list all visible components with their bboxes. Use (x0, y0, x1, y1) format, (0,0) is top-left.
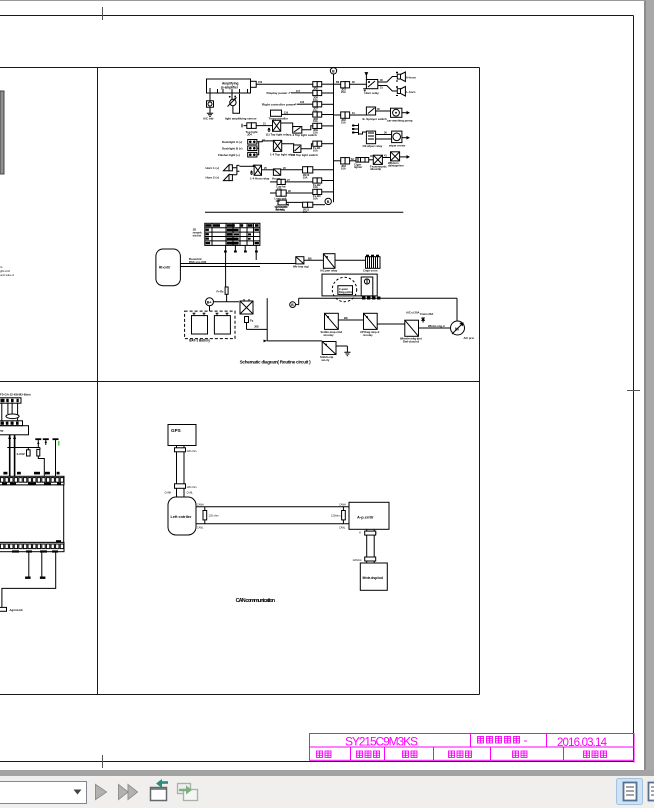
arrowheads on power pair (8, 435, 16, 439)
compressor dashed circle (332, 277, 356, 301)
terminal strip lower (0, 542, 64, 551)
CAN stub wire 2 (41, 552, 43, 577)
svg-text:10A: 10A (276, 199, 281, 203)
svg-text:Mntr.dsplod: Mntr.dsplod (363, 576, 383, 580)
svg-text:CAN communication: CAN communication (236, 598, 276, 604)
wire sensor to relay (304, 259, 324, 261)
svg-text:Tmpcontroller: Tmpcontroller (269, 116, 289, 120)
combo dropdown arrow (74, 790, 82, 795)
svg-text:31: 31 (380, 86, 383, 89)
wire drops from J1 (1, 403, 3, 421)
row2 name ZhanYunFei (357, 751, 380, 758)
horn symbol 1 (223, 165, 232, 171)
inner divider horizontal (0, 381, 480, 383)
svg-text:Dashlight A (+): Dashlight A (+) (222, 140, 242, 144)
top light fuse pair (247, 123, 256, 129)
terminal resistor 120ohm lower (175, 484, 186, 489)
svg-text:120ohm: 120ohm (331, 514, 340, 518)
drawing title CJK (478, 737, 528, 744)
terminal resistor 120ohm top (175, 448, 186, 452)
svg-text:10A: 10A (313, 197, 318, 201)
wires dash chain (282, 144, 294, 145)
row2 label ShenPi (513, 751, 528, 758)
svg-text:10A: 10A (313, 98, 318, 102)
svg-text:Fr-Rs: Fr-Rs (217, 290, 225, 294)
svg-text:Horn relay: Horn relay (365, 91, 380, 95)
feed wire to lower relay (267, 340, 322, 342)
svg-text:Rd-wn: Rd-wn (276, 208, 284, 212)
svg-text:JD4: JD4 (247, 133, 252, 137)
svg-text:Wlmtn-nng-d: Wlmtn-nng-d (428, 324, 445, 328)
svg-text:10A: 10A (341, 166, 346, 170)
fuse FB3 right column (341, 158, 350, 164)
svg-text:B: B (327, 200, 330, 204)
ground below S1 (209, 107, 211, 113)
return wire right (2, 552, 56, 608)
svg-text:117: 117 (296, 90, 301, 93)
battery feed arrow into horn relay (365, 73, 367, 80)
relay K-comp (323, 254, 335, 269)
svg-text:CANL: CANL (187, 492, 194, 495)
wire toplight to relay (256, 125, 272, 127)
play button double (119, 785, 129, 800)
svg-text:A/C trib: A/C trib (203, 117, 214, 121)
wire FB2 to sprayer switch (350, 114, 367, 116)
fuse F3 (313, 102, 322, 107)
svg-text:wl-relay: wl-relay (323, 333, 335, 337)
svg-text:car-washing pump: car-washing pump (387, 118, 413, 122)
svg-text:120ohm: 120ohm (353, 558, 362, 562)
svg-text:4-C02: 4-C02 (17, 452, 26, 456)
wire CAN pair from GPS (176, 446, 178, 498)
wire to horn H (378, 77, 398, 83)
svg-text:1-3 Top light switch: 1-3 Top light switch (291, 153, 318, 157)
node B+ circle (206, 298, 214, 306)
wire CANL bus (196, 523, 349, 525)
svg-text:Horn 2 (+): Horn 2 (+) (206, 175, 220, 179)
svg-text:F5-G4-J2-K8-M3-Bttm: F5-G4-J2-K8-M3-Bttm (0, 393, 31, 397)
relay K-A (325, 313, 339, 329)
row2 name ZhuChuanBao (584, 751, 607, 758)
fuse F4 (313, 112, 322, 117)
wire K-A to K-B (338, 319, 363, 321)
pump ground stub (402, 112, 407, 114)
fuse F5 (313, 123, 322, 128)
left clipped gray block (0, 91, 4, 174)
row2 label SheJi (317, 751, 332, 758)
svg-text:Display power: Display power (267, 91, 289, 95)
left clipped text (0, 265, 14, 277)
compressor motor M1 (451, 321, 465, 335)
table pin leads (226, 245, 257, 287)
multi-pin connector CN9 (366, 255, 381, 269)
svg-text:CANH: CANH (197, 503, 204, 506)
arrow marks (37, 440, 47, 444)
connector CN-C (248, 152, 257, 157)
inner zone box bottom (0, 694, 480, 696)
svg-text:SY215C9M3KS: SY215C9M3KS (345, 735, 418, 749)
svg-text:wn-rly: wn-rly (321, 358, 330, 362)
svg-text:Dwg-ptnlnn: Dwg-ptnlnn (339, 290, 354, 294)
inner zone box top (0, 67, 480, 69)
relay K-horn-cab (254, 165, 261, 175)
svg-text:Horn 1 (+): Horn 1 (+) (206, 166, 220, 170)
wire FB1 to horn relay (350, 83, 367, 85)
svg-text:15A: 15A (303, 176, 308, 180)
svg-text:25A: 25A (341, 90, 346, 94)
section separator line (205, 211, 403, 213)
svg-text:10A: 10A (313, 109, 318, 113)
connector J1 row (0, 398, 21, 403)
compressor inner box (338, 286, 353, 295)
svg-text:n/a-list: n/a-list (193, 234, 202, 238)
row2 label ShenHe (403, 751, 418, 758)
resistor on drop pair upper (365, 531, 376, 535)
controller ECU body (0, 485, 64, 543)
drawing frame bottom border (0, 761, 634, 763)
svg-text:Left cntrller: Left cntrller (171, 515, 192, 519)
svg-text:Cmpr-conn: Cmpr-conn (363, 269, 378, 273)
arrow junction (264, 340, 268, 343)
svg-text:B. Sprayer switch: B. Sprayer switch (363, 117, 387, 121)
resistor vertical (37, 449, 40, 456)
svg-text:10A: 10A (313, 185, 318, 189)
svg-text:Dwf-clutch-jl: Dwf-clutch-jl (403, 340, 419, 344)
svg-text:CANL: CANL (197, 527, 204, 530)
horn symbol 2 (223, 175, 232, 181)
battery BAT-1 dashed enclosure (185, 311, 235, 339)
ground reference box (0, 607, 7, 611)
svg-text:118: 118 (300, 101, 305, 104)
terminal strip upper (0, 476, 64, 485)
title block border (310, 734, 635, 763)
svg-text:Wtr-tmp sigl: Wtr-tmp sigl (293, 265, 309, 269)
relay coil tap (245, 317, 249, 323)
drawing frame right border (633, 16, 635, 762)
wire pair controller right (180, 263, 295, 265)
resistor on drop pair lower 120ohm (365, 557, 376, 561)
dashlight bus join (257, 142, 259, 155)
terminating resistor mid 120ohm (203, 511, 207, 520)
wire relay to connector (335, 259, 366, 261)
fuse F2 (313, 90, 322, 95)
box row D left (278, 200, 286, 205)
junction tick (253, 165, 257, 167)
wire stub to fuse row1 (256, 83, 313, 85)
switch S-dash (294, 145, 301, 152)
left controller rounded box (168, 497, 196, 535)
pin smudges below lower strip (12, 550, 58, 552)
relay K-toplight (273, 120, 281, 131)
switch S-toplight (293, 127, 302, 134)
svg-text:A/C prsr: A/C prsr (464, 336, 475, 340)
page layout button selected (617, 779, 643, 805)
svg-text:(1) Top light relay: (1) Top light relay (266, 133, 290, 137)
switch S-spray (366, 107, 375, 115)
mid unit box (wiper feed) (271, 110, 282, 116)
svg-text:J08: J08 (254, 325, 259, 329)
svg-text:wiper motor: wiper motor (388, 143, 406, 147)
extra fuse value labels (247, 90, 346, 214)
clutch coil box (405, 320, 419, 336)
relay K-h2 (273, 169, 280, 175)
main harness vertical (266, 298, 268, 341)
wire horns to relay (239, 165, 254, 167)
svg-text:Cnmn 20A: Cnmn 20A (420, 312, 433, 316)
drawing frame top border (0, 15, 634, 17)
sensor box B1 (296, 257, 304, 264)
svg-text:Right controller power: Right controller power (262, 102, 296, 106)
node B top circle (330, 68, 336, 74)
sensor return loop (233, 94, 240, 114)
fuse F1 (313, 82, 322, 87)
light sensor Q1 (231, 93, 233, 100)
svg-text:B6: B6 (308, 256, 312, 260)
relay K-dash (273, 140, 281, 151)
svg-text:Dashlight B (+): Dashlight B (+) (222, 147, 243, 151)
wires wiper relay to motor (376, 134, 392, 136)
clutch diode (421, 318, 425, 323)
node B lower circle (325, 198, 331, 204)
U1 right pin stub (251, 81, 257, 87)
svg-text:120 ohm: 120 ohm (187, 485, 197, 489)
washer pump M2 (391, 108, 402, 117)
wire bus to FB2 (334, 114, 341, 116)
wire lighter to sockets (369, 159, 374, 161)
green wire mark (58, 441, 60, 446)
pin map table (205, 223, 260, 245)
horn join bracket (232, 165, 239, 174)
wire relay chain to fuse F9 (262, 169, 274, 171)
pin number smudges below strip (2, 483, 61, 485)
svg-text:nlbomllp: nlbomllp (370, 167, 382, 171)
fuse F8 (313, 189, 322, 194)
fold mark bottom (102, 755, 104, 768)
row2 name TuXiaoDan (449, 751, 472, 758)
svg-text:CANH: CANH (339, 503, 346, 506)
pin flags above terminal strip (3, 472, 59, 475)
ground at horn relay (363, 89, 366, 92)
wire bus to FB3 (334, 160, 341, 162)
svg-text:Fq: Fq (250, 319, 254, 323)
display unit box (360, 563, 387, 590)
power wire pair heavy (9, 435, 11, 477)
relay K-horn (366, 80, 377, 89)
connector CN-A (248, 140, 257, 145)
svg-text:CANH: CANH (165, 492, 172, 495)
ground sym right of K-low (336, 346, 351, 356)
export window icon (disabled) (178, 784, 198, 801)
svg-text:1-4 Horn relay: 1-4 Horn relay (250, 177, 270, 181)
loop ferrite ellipse (6, 414, 19, 419)
wire clutch to compressor motor (419, 327, 451, 329)
connector bracket CN2 (352, 124, 358, 135)
svg-text:BAT-1 Battery: BAT-1 Battery (189, 339, 210, 343)
svg-text:light amplifying sensor: light amplifying sensor (225, 117, 258, 121)
svg-text:120 ohm: 120 ohm (209, 514, 219, 518)
socket X1 (373, 155, 382, 164)
wire B+ to bus (214, 301, 240, 303)
svg-text:15A: 15A (313, 131, 318, 135)
battery cell 2 (214, 316, 230, 334)
resistor R-mid vertical (225, 287, 228, 294)
fuse FB2 right column (341, 112, 350, 118)
svg-text:dalmapnlvm: dalmapnlvm (388, 164, 404, 168)
svg-text:Rt-cntlr: Rt-cntlr (159, 266, 171, 270)
battery cell 1 (192, 316, 208, 334)
GPS unit box (168, 425, 196, 446)
drop wires to connector (39, 448, 41, 450)
CAN stub wire 1 (28, 552, 30, 577)
wire jog (38, 456, 44, 477)
wiper relay K-wip (366, 131, 375, 144)
right controller box (349, 502, 389, 529)
svg-text:15A: 15A (341, 121, 346, 125)
fuse F7 (313, 178, 322, 183)
svg-text:CANL: CANL (339, 527, 346, 530)
compressor assembly outline (322, 274, 377, 296)
svg-text:H-horn: H-horn (406, 76, 416, 80)
svg-text:mp: mp (0, 429, 4, 433)
horn H-horn speaker (397, 72, 405, 82)
A/C switch S1 (209, 93, 211, 101)
svg-text:GPS: GPS (171, 428, 181, 433)
svg-text:js-amplifier: js-amplifier (220, 86, 239, 90)
svg-text:L: L (376, 532, 378, 535)
wires toplight chain (281, 123, 293, 128)
right controller rounded unit (156, 249, 181, 286)
svg-text:Agrnd-mk: Agrnd-mk (10, 608, 24, 612)
svg-text:Schematic diagram( Routine cir: Schematic diagram( Routine circuit ) (240, 360, 311, 365)
fuse FB1 right column (341, 82, 350, 88)
svg-text:B8: B8 (344, 316, 348, 320)
fuse F10 lower-left (303, 202, 313, 207)
wire FB3 to lighter (350, 160, 356, 162)
bus stubs to fuses (313, 84, 334, 205)
speaker stub right (400, 156, 407, 158)
terminal squares below (362, 297, 380, 300)
svg-text:lighter: lighter (354, 165, 362, 169)
svg-text:10A: 10A (313, 119, 318, 123)
svg-text:A/C pwr relay: A/C pwr relay (320, 269, 338, 273)
svg-text:119: 119 (284, 111, 289, 114)
play button single (96, 785, 107, 800)
junction box outline (0, 426, 29, 435)
svg-text:10A: 10A (303, 210, 308, 214)
inner divider vertical (97, 68, 99, 695)
svg-text:unit wire-d: unit wire-d (0, 273, 14, 277)
svg-text:L-horn: L-horn (406, 90, 415, 94)
socket X2 (391, 152, 400, 161)
wire to horn L (378, 86, 398, 92)
partial next button at edge (649, 783, 654, 801)
cigar lighter E1 (356, 158, 369, 163)
svg-text:H: H (359, 532, 361, 535)
power bus vertical (333, 74, 335, 202)
relay K-B (364, 313, 378, 329)
wire switch to washer pump (376, 110, 391, 112)
fold mark top (102, 7, 104, 20)
bus wire horizontal (7, 447, 40, 449)
wiper motor M3 (392, 131, 402, 143)
svg-text:152: 152 (258, 81, 263, 84)
svg-text:Flasher-light (+): Flasher-light (+) (218, 153, 240, 157)
wire K-B to clutch (377, 323, 405, 325)
inner zone box right (479, 68, 481, 695)
wire net number ticks (258, 79, 387, 193)
fuse pair row B left (277, 179, 285, 184)
fuse F9 lower-left (303, 167, 313, 173)
svg-text:120 ohm: 120 ohm (187, 449, 197, 453)
svg-text:B+: B+ (207, 300, 213, 304)
wire drop from relay (247, 323, 268, 330)
wire bracket to wiper (359, 132, 367, 134)
svg-text:Oil wiper relay: Oil wiper relay (363, 144, 383, 148)
connector CN-B (248, 146, 257, 151)
AC amplifier unit U1 (207, 79, 251, 93)
svg-text:10A: 10A (313, 148, 318, 152)
node B circle mid (290, 302, 296, 308)
main feed wire long (299, 297, 457, 299)
wire bus to FB1 (334, 83, 341, 85)
terminator bar 1 (25, 577, 31, 579)
fold mark right mid (627, 390, 640, 392)
connector J2 row (0, 421, 23, 426)
horn L-horn speaker (397, 87, 405, 97)
import window icon (151, 779, 169, 801)
svg-text:15A: 15A (277, 187, 282, 191)
U1 bottom pins (210, 88, 248, 93)
toolbar icons svg (0, 776, 654, 808)
svg-text:nl-relay: nl-relay (363, 333, 373, 337)
wire pair down from controller (366, 529, 368, 563)
corner pin mark (56, 540, 61, 542)
net tee cap 2 (53, 438, 59, 440)
fuse pair row C left (276, 190, 286, 196)
svg-text:A-p.cntlr: A-p.cntlr (357, 515, 374, 520)
pressure switch box (361, 277, 373, 296)
svg-text:A/C-cl 20A: A/C-cl 20A (406, 311, 420, 315)
svg-text:2016.03.14: 2016.03.14 (557, 737, 608, 749)
terminating resistor right 120ohm (342, 511, 346, 520)
relay K-main (240, 301, 253, 314)
net tee cap 1 (35, 438, 49, 440)
svg-text:B: B (332, 69, 335, 73)
relay K-low (322, 342, 336, 355)
wire CANH bus (196, 506, 349, 508)
fuse F6 (313, 141, 322, 146)
terminator bar 2 (40, 577, 46, 579)
